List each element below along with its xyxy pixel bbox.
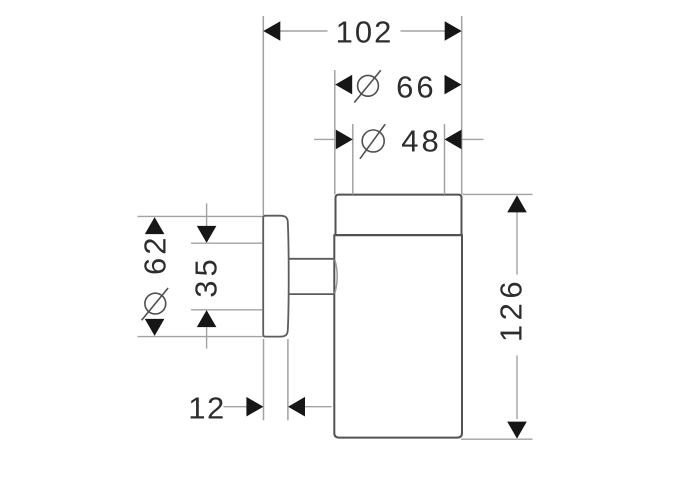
dimension D66: right arrow [445,75,462,95]
svg-text:62: 62 [137,234,172,274]
dimension 126: dim line upper segment [516,212,518,275]
dimension 35: bottom arrow (pointing up) [197,310,217,327]
dimension D66: left arrow [335,75,352,95]
dimension D62: top extension line [138,215,263,217]
dimension D48: left arrow (pointing right) [336,130,353,150]
dimension 102: dim line left segment [279,30,328,32]
dimension 35: bottom tick line [191,309,263,311]
stem top line [288,258,335,260]
dimension 12: dim leader left [224,406,248,408]
dimension 126: bottom extension line [461,438,533,440]
dimension 126: bottom arrow (down) [507,422,527,439]
dimension D48: left leader line [314,138,336,140]
svg-text:12: 12 [188,391,225,426]
dimension D48: diameter symbol [360,124,385,159]
svg-text:35: 35 [189,255,224,297]
dimension D62: top arrow (up) [145,217,165,234]
dimension D66: left extension line [334,70,336,194]
stem end arc (behind cup wall) [335,260,337,294]
dimension 102: right arrow [445,21,462,41]
svg-text:48: 48 [401,123,441,158]
dimension 12: right extension line [287,339,289,420]
dimension 102: left extension line [262,16,264,215]
cup rim (top section, D66) [336,195,462,235]
stem bottom line [288,293,335,295]
svg-text:66: 66 [396,70,436,105]
dimension 12: right arrow (pointing left) [288,397,305,417]
dimension 102/66: right extension line [461,16,463,194]
dimension D66: diameter symbol [354,70,381,102]
dimension D48: left extension line [352,124,354,194]
dimension 12: left arrow (pointing right) [246,397,263,417]
dimension 126: dim line lower segment [516,356,518,420]
dimension 35: top tail line [206,203,208,226]
dimension D48: right arrow (pointing left) [445,130,462,150]
wall plate (escutcheon, D62, thickness 12) [263,216,289,337]
svg-text:102: 102 [336,15,394,50]
dimension 102: left arrow [263,21,280,41]
dimension D62: bottom extension line [138,336,263,338]
dimension 126: top extension line [463,193,533,195]
dimension 35: top arrow (pointing down) [197,226,217,243]
dimension 126: top arrow (up) [507,195,527,212]
svg-text:126: 126 [494,277,529,342]
dimension 102: dim line right segment [401,30,446,32]
dimension D62: diameter symbol [142,288,169,320]
dimension D62: bottom arrow (down) [145,319,165,336]
dimension D48: right leader line [462,138,484,140]
dimension 35: bottom tail line [206,327,208,348]
cup body (holder, height 126) [334,235,462,437]
dimension D48: right extension line [444,124,446,194]
dimension 12: left extension line [263,339,265,420]
dimension 35: top tick line [191,242,263,244]
dimension 12: right leader line [305,406,332,408]
